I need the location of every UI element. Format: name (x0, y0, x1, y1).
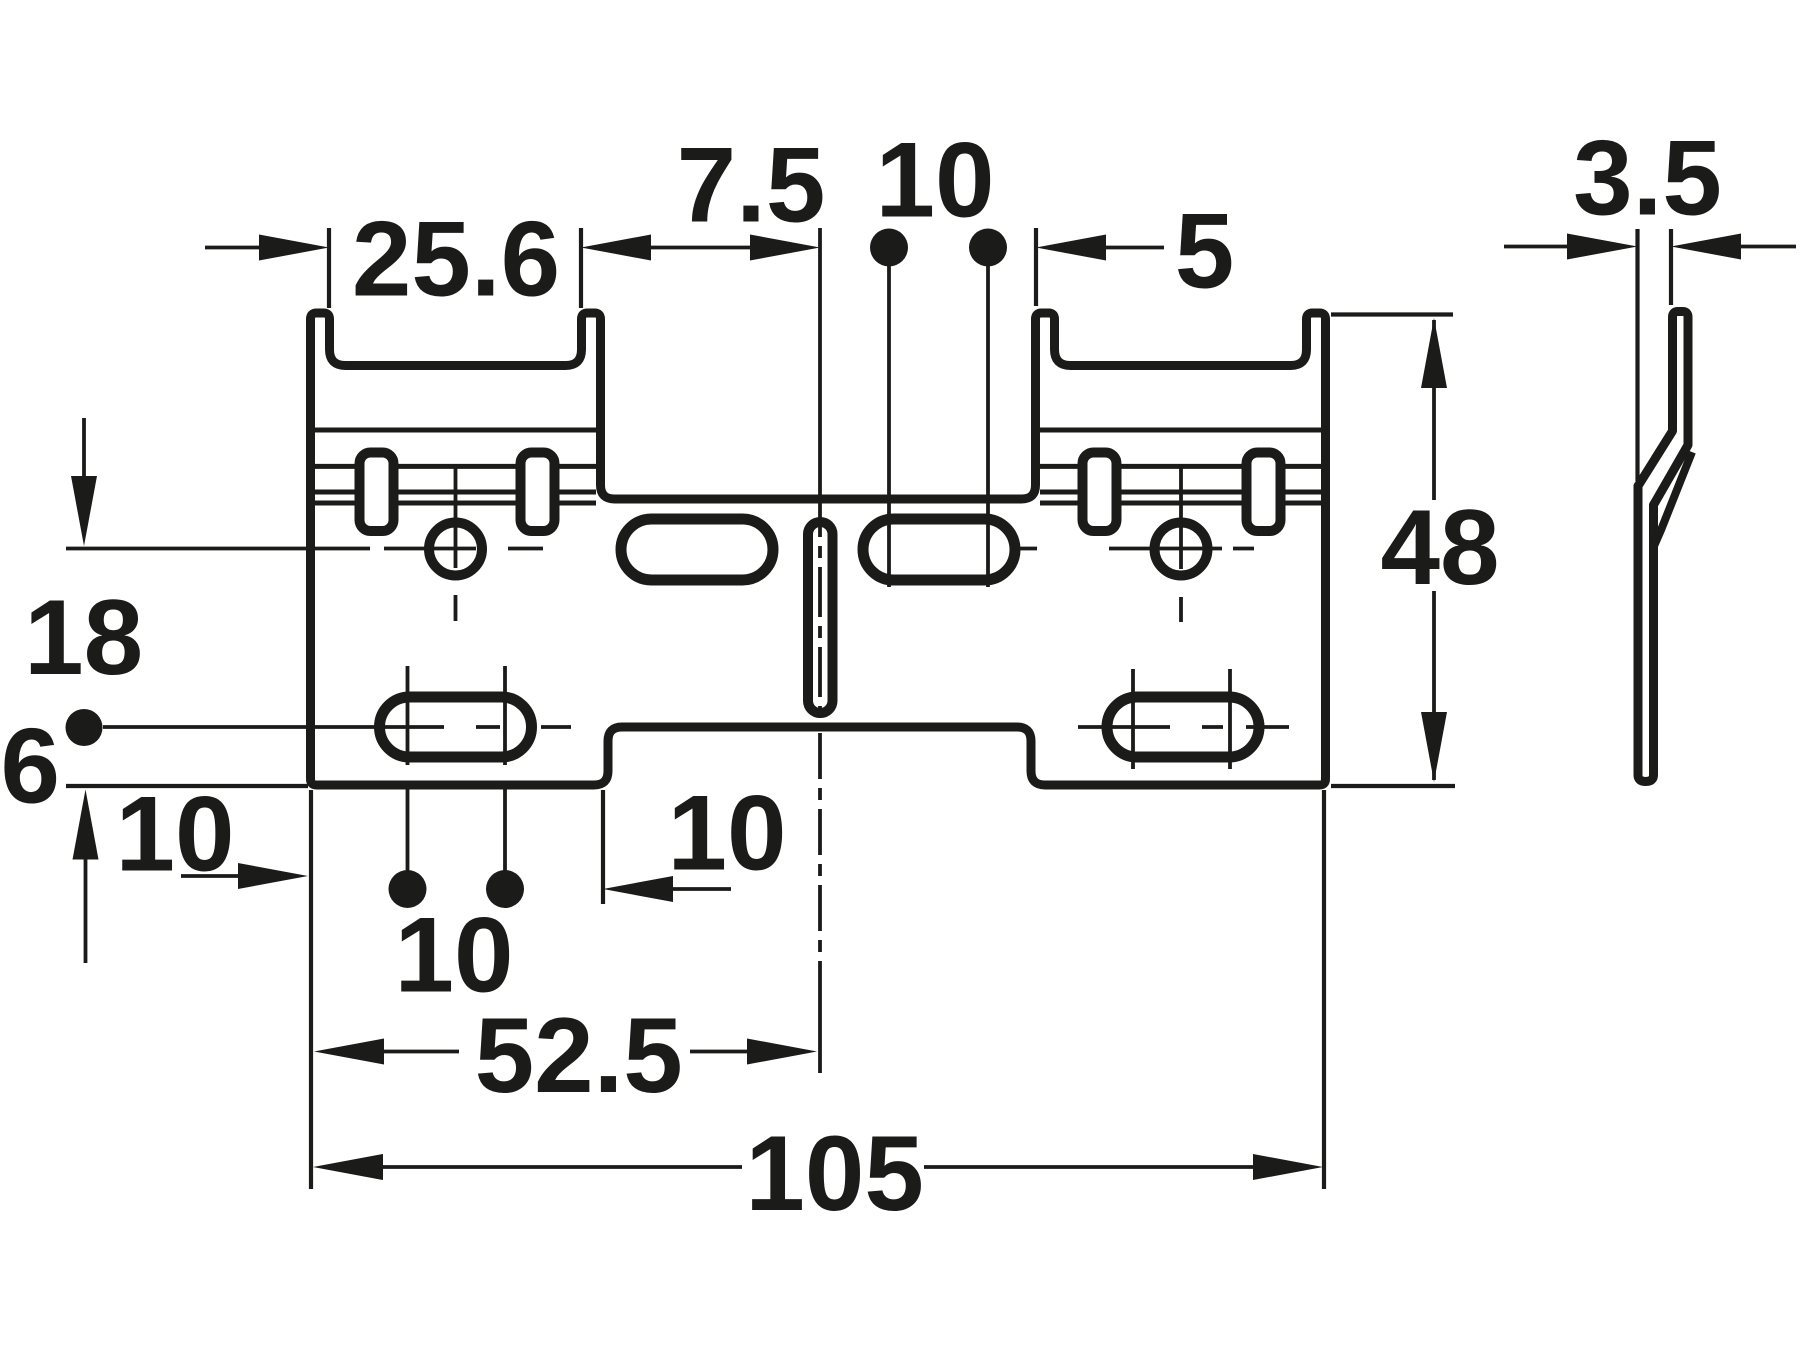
svg-text:48: 48 (1380, 487, 1499, 607)
svg-text:10: 10 (115, 774, 234, 894)
svg-text:18: 18 (24, 577, 143, 697)
svg-text:105: 105 (745, 1113, 924, 1233)
svg-text:25.6: 25.6 (352, 199, 560, 319)
svg-text:6: 6 (1, 706, 61, 826)
svg-text:10: 10 (667, 773, 786, 893)
svg-text:7.5: 7.5 (677, 125, 826, 245)
svg-text:3.5: 3.5 (1573, 118, 1722, 238)
svg-text:52.5: 52.5 (475, 995, 683, 1115)
svg-text:10: 10 (875, 120, 994, 240)
svg-text:5: 5 (1175, 191, 1235, 311)
